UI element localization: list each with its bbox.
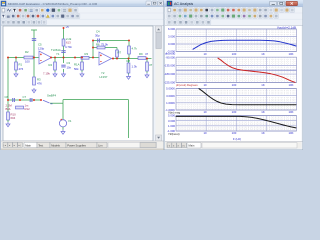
svg-text:10K: 10K [289, 110, 294, 114]
svg-text:10K: 10K [289, 131, 294, 135]
svg-text:1.3k: 1.3k [132, 65, 138, 69]
svg-text:10K: 10K [289, 83, 294, 87]
svg-text:-135.000: -135.000 [164, 64, 175, 68]
svg-text:0.000: 0.000 [168, 42, 175, 46]
svg-text:1K: 1K [261, 83, 265, 87]
svg-text:5.000: 5.000 [168, 114, 175, 118]
svg-text:476: 476 [19, 67, 24, 71]
svg-text:476: 476 [37, 82, 42, 86]
svg-text:Power Supplies: Power Supplies [67, 143, 86, 147]
svg-text:◄: ◄ [173, 145, 175, 148]
svg-text:R2: R2 [25, 50, 29, 54]
svg-text:|◄: |◄ [4, 144, 7, 147]
svg-text:100: 100 [232, 52, 237, 56]
svg-text:R6: R6 [96, 43, 100, 47]
svg-text:R7: R7 [118, 51, 122, 55]
svg-text:10: 10 [203, 131, 207, 135]
svg-text:75.0k: 75.0k [101, 43, 108, 47]
svg-text:Models: Models [51, 143, 60, 147]
svg-text:LF157: LF157 [100, 75, 108, 79]
svg-text:120p: 120p [38, 47, 45, 51]
svg-text:|◄: |◄ [168, 145, 171, 148]
svg-text:R12: R12 [25, 107, 31, 111]
svg-text:Vout(v)=2.1dB: Vout(v)=2.1dB [277, 25, 296, 29]
svg-text:100: 100 [232, 131, 237, 135]
svg-text:Main: Main [25, 143, 31, 147]
svg-text:Text: Text [38, 143, 43, 147]
svg-text:+5: +5 [66, 25, 70, 29]
svg-text:R8: R8 [127, 59, 131, 63]
svg-text:4T: 4T [149, 63, 153, 67]
svg-text:F (Hz): F (Hz) [233, 137, 241, 141]
svg-text:5.000K: 5.000K [166, 87, 175, 91]
svg-text:-180.000: -180.000 [164, 72, 175, 76]
svg-text:100: 100 [232, 110, 237, 114]
svg-text:3.000: 3.000 [168, 35, 175, 39]
svg-text:50k: 50k [74, 67, 79, 71]
svg-text:C6: C6 [5, 95, 9, 99]
svg-text:R4: R4 [49, 63, 53, 67]
svg-text:BUL: BUL [6, 107, 12, 111]
svg-text:604: 604 [11, 116, 16, 120]
svg-text:4.70n: 4.70n [65, 45, 72, 49]
svg-text:C7: C7 [23, 95, 27, 99]
svg-text:4.7k: 4.7k [132, 47, 138, 51]
svg-text:-90.000: -90.000 [166, 55, 176, 59]
svg-text:R3: R3 [85, 52, 89, 56]
svg-text:-225.000: -225.000 [164, 81, 175, 85]
svg-text:Lim: Lim [98, 143, 103, 147]
svg-text:10: 10 [203, 52, 207, 56]
svg-text:1.000: 1.000 [168, 124, 175, 128]
svg-text:R9: R9 [139, 52, 143, 56]
svg-text:YZ(inout): YZ(inout) [168, 132, 180, 136]
svg-text:◄: ◄ [9, 144, 11, 147]
svg-text:►: ► [177, 145, 179, 148]
svg-text:MICRO-CAP Evaluation - C:\MC\D: MICRO-CAP Evaluation - C:\MC\DATA\Filter… [8, 2, 98, 6]
svg-text:100: 100 [232, 83, 237, 87]
svg-text:R1A: R1A [74, 63, 80, 67]
svg-text:►: ► [13, 144, 15, 147]
svg-text:Y1: Y1 [56, 52, 60, 56]
svg-text:613: 613 [66, 41, 71, 45]
svg-text:ph(vout) Degrees: ph(vout) Degrees [176, 83, 198, 87]
svg-text:7.19k: 7.19k [43, 72, 50, 76]
svg-text:1K: 1K [261, 110, 265, 114]
svg-text:30p: 30p [95, 34, 100, 38]
svg-text:AC Analysis: AC Analysis [174, 2, 193, 6]
svg-text:10: 10 [203, 110, 207, 114]
svg-text:R1: R1 [19, 63, 23, 67]
svg-text:3.000K: 3.000K [166, 94, 175, 98]
svg-text:100: 100 [25, 60, 30, 64]
svg-text:6.000: 6.000 [168, 27, 175, 31]
svg-text:Main: Main [189, 144, 195, 148]
svg-text:10K: 10K [289, 52, 294, 56]
svg-text:1.000K: 1.000K [166, 101, 175, 105]
svg-text:47: 47 [145, 52, 149, 56]
svg-text:10: 10 [203, 83, 207, 87]
svg-text:3.000: 3.000 [168, 119, 175, 123]
svg-text:SwBF4: SwBF4 [47, 93, 56, 97]
svg-text:1K: 1K [261, 52, 265, 56]
svg-text:V1: V1 [68, 119, 72, 123]
svg-text:10n: 10n [67, 65, 72, 69]
svg-text:1K: 1K [261, 131, 265, 135]
